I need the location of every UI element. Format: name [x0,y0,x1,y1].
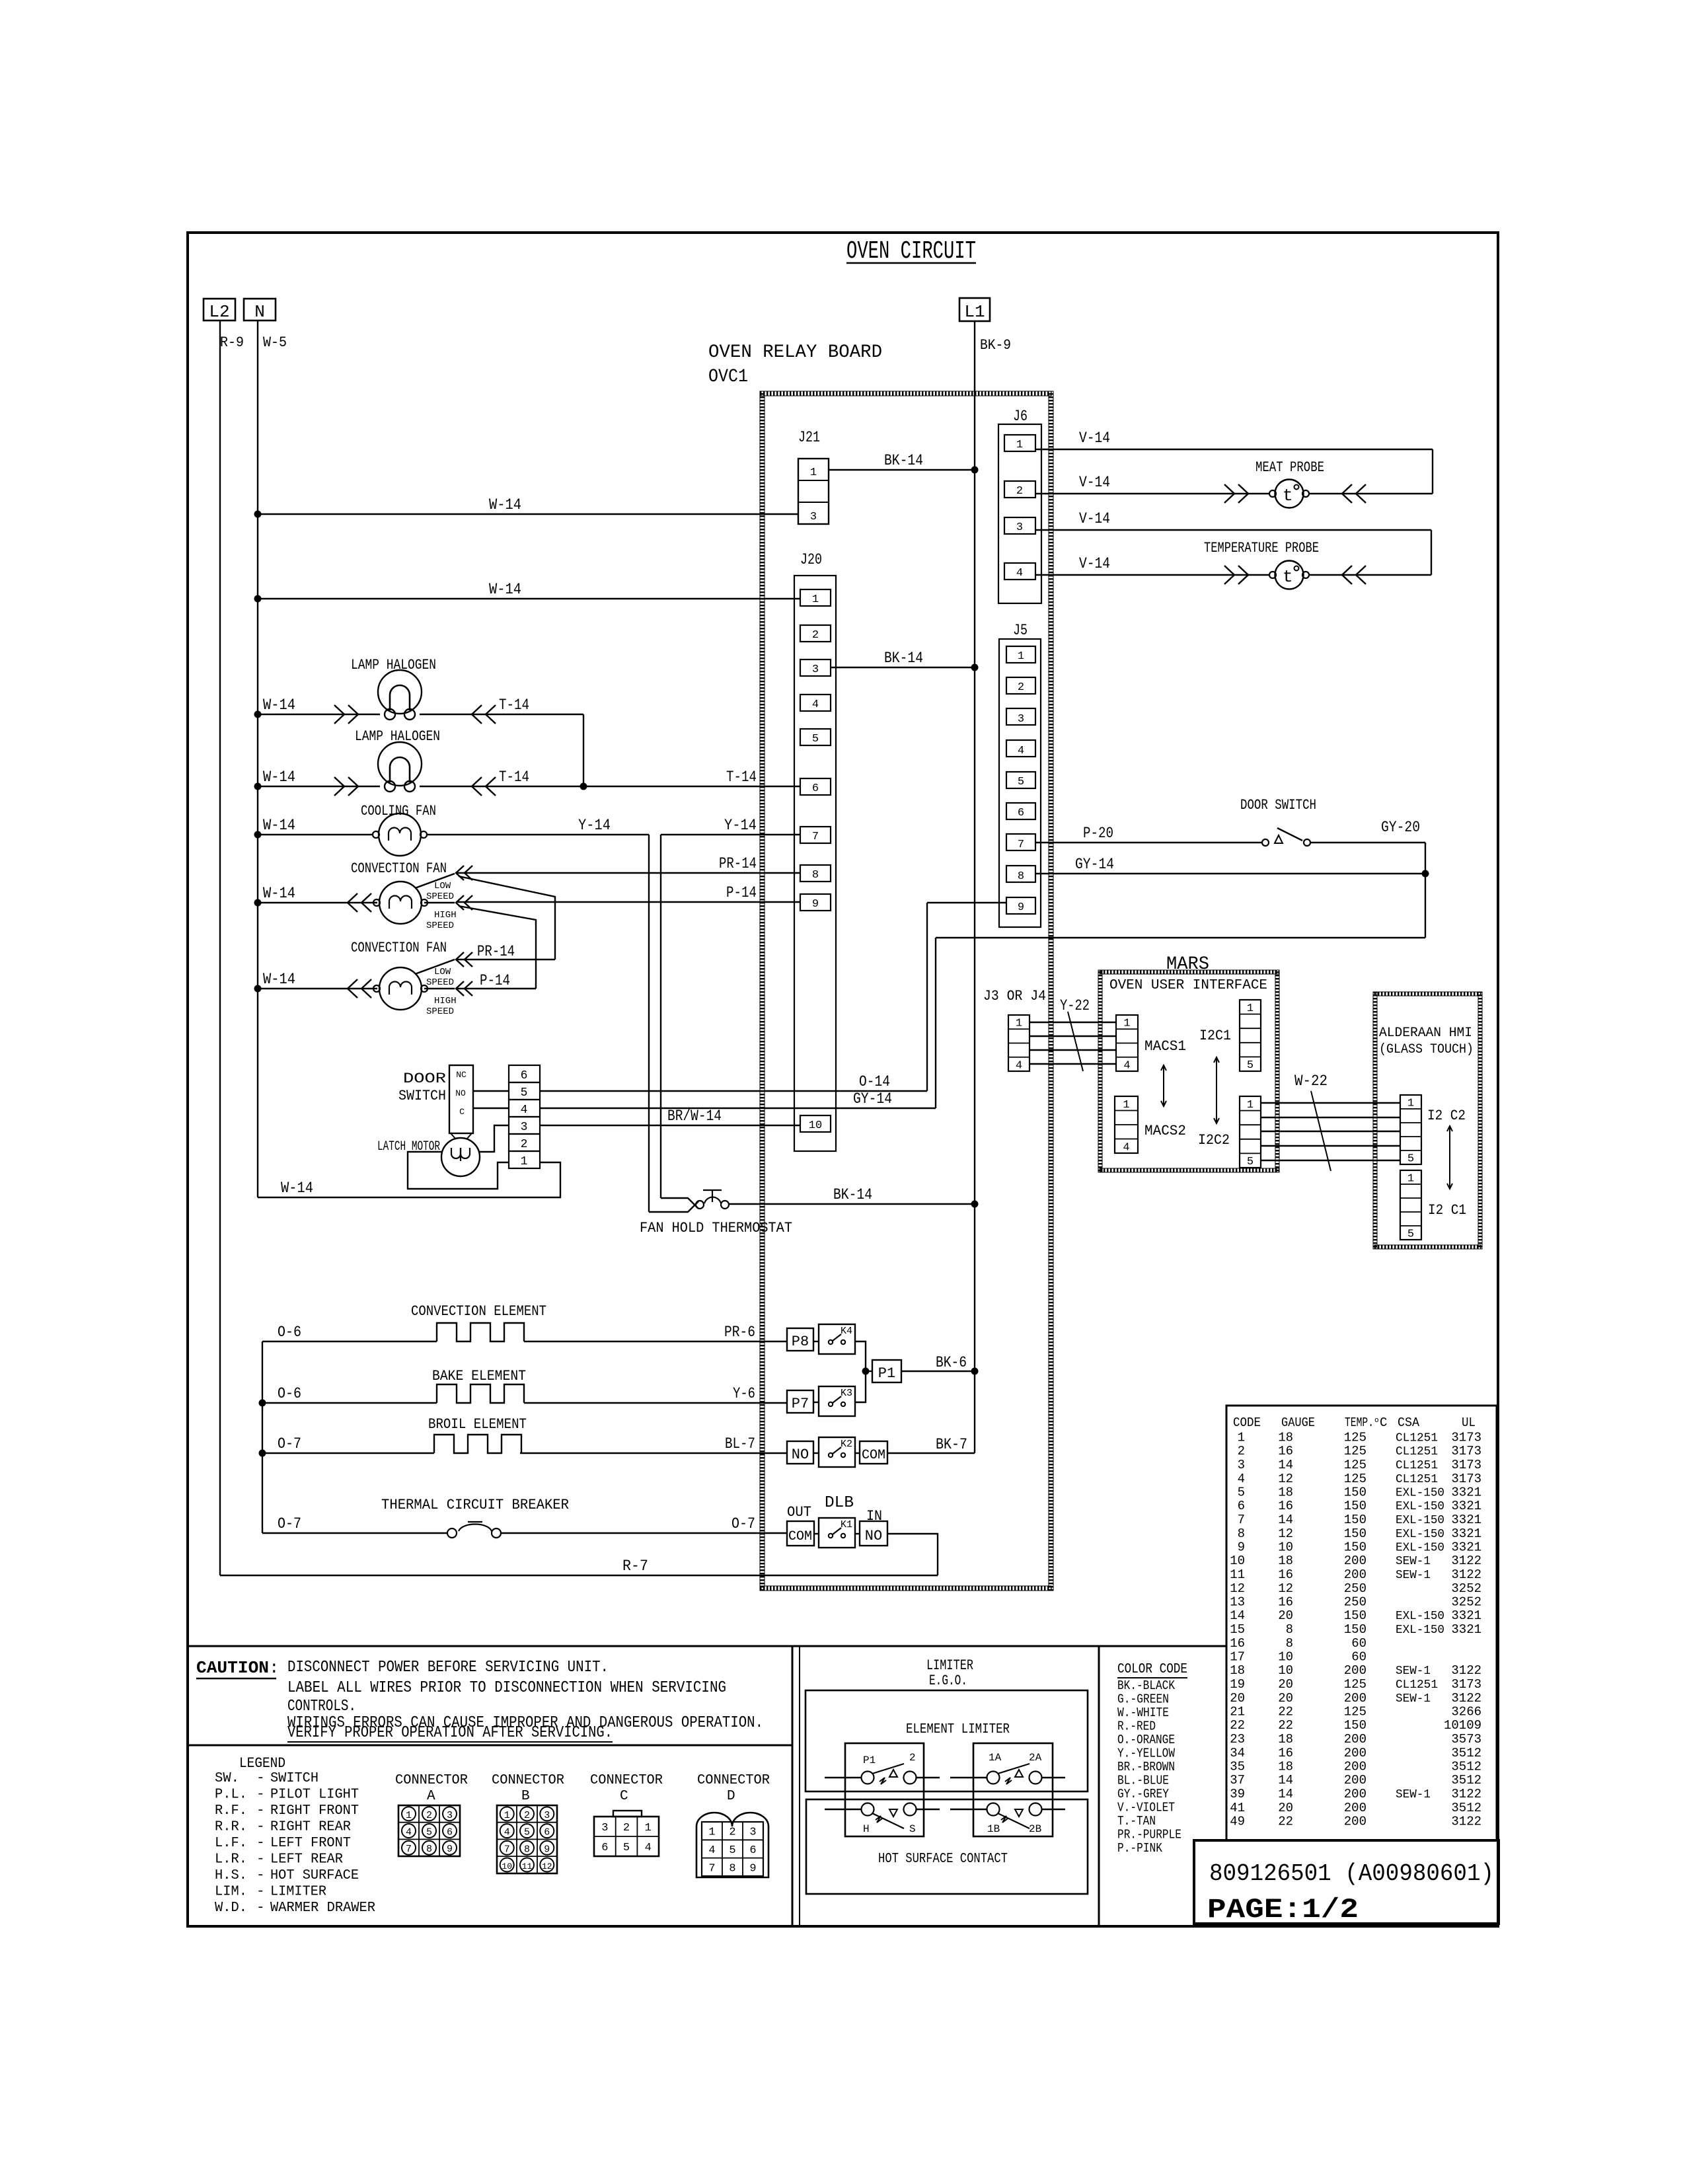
latch motor [377,1138,480,1176]
svg-text:P1: P1 [878,1365,895,1382]
svg-text:NO: NO [455,1088,466,1098]
svg-text:EXL-150: EXL-150 [1396,1487,1444,1500]
svg-text:HOT SURFACE: HOT SURFACE [270,1868,359,1883]
svg-text:P-14: P-14 [480,972,510,989]
svg-text:O-7: O-7 [278,1515,301,1532]
svg-text:3: 3 [1238,1458,1245,1472]
svg-text:COM: COM [788,1529,812,1544]
svg-text:Y-14: Y-14 [724,817,757,834]
svg-text:4: 4 [1016,567,1023,580]
svg-text:TEMPERATURE PROBE: TEMPERATURE PROBE [1204,540,1319,556]
svg-text:1: 1 [1407,1173,1414,1186]
DLB relay labels [787,1494,882,1525]
svg-text:RIGHT FRONT: RIGHT FRONT [270,1803,359,1819]
svg-text:PR.-PURPLE: PR.-PURPLE [1117,1828,1181,1842]
svg-text:3122: 3122 [1451,1554,1481,1568]
svg-text:BK-6: BK-6 [936,1354,967,1371]
terminal L2 [204,299,235,322]
svg-text:12: 12 [1278,1581,1293,1596]
svg-text:8: 8 [524,1844,530,1855]
svg-text:3512: 3512 [1451,1801,1481,1815]
svg-text:BK-9: BK-9 [980,337,1011,354]
svg-text:4: 4 [406,1827,412,1838]
svg-text:L.F.: L.F. [215,1836,247,1851]
connector B diagram [492,1773,564,1873]
wire GY-20 door switch to corner [1310,819,1425,938]
svg-text:CONNECTOR: CONNECTOR [395,1773,468,1788]
wire BK-6 P1 to L1 [901,1354,979,1375]
svg-text:K1: K1 [841,1519,852,1530]
hot surface contacts 1B-2B [950,1803,1065,1836]
svg-text:5: 5 [1238,1486,1245,1500]
terminal L1 [959,298,990,322]
svg-text:6: 6 [447,1827,453,1838]
svg-text:2: 2 [623,1822,630,1834]
svg-text:TEMP.: TEMP. [1345,1415,1374,1430]
svg-text:SPEED: SPEED [426,1006,454,1017]
svg-text:EXL-150: EXL-150 [1396,1500,1444,1513]
connector J20 [794,551,836,1151]
section divider vertical 1 [792,1646,800,1926]
svg-text:5: 5 [1018,776,1024,788]
svg-text:EXL-150: EXL-150 [1396,1624,1444,1637]
svg-text:10: 10 [1278,1540,1293,1555]
svg-text:H: H [863,1823,870,1835]
connector J5 [999,622,1041,927]
hot surface contacts H-S [825,1803,940,1836]
svg-text:3512: 3512 [1451,1773,1481,1788]
svg-text:150: 150 [1344,1718,1367,1733]
svg-text:T-14: T-14 [726,769,757,786]
svg-text:22: 22 [1278,1815,1293,1829]
svg-text:3573: 3573 [1451,1732,1481,1747]
svg-text:18: 18 [1278,1431,1293,1445]
wire V-14 J6 pin1 [1035,430,1433,449]
svg-text:VERIFY PROPER OPERATION AFTER: VERIFY PROPER OPERATION AFTER SERVICING. [287,1724,613,1742]
svg-text:2: 2 [426,1810,432,1821]
svg-text:Y-14: Y-14 [578,817,611,834]
svg-text:V-14: V-14 [1079,430,1110,447]
svg-text:S: S [909,1823,916,1835]
svg-text:6: 6 [601,1842,608,1854]
door switch (oven) [1240,797,1316,846]
svg-text:BR/W-14: BR/W-14 [667,1108,722,1125]
svg-text:14: 14 [1278,1513,1293,1527]
svg-text:7: 7 [1018,839,1024,851]
relay terminal NO (DLB) [814,1521,887,1546]
svg-text:2: 2 [524,1810,530,1821]
svg-text:J20: J20 [800,551,822,568]
connector I2 C2 [1400,1095,1466,1166]
svg-text:C: C [1380,1415,1387,1430]
svg-text:W.D.: W.D. [215,1901,247,1916]
svg-text:200: 200 [1344,1732,1367,1747]
meat probe [1035,449,1433,508]
svg-text:W-14: W-14 [263,885,295,902]
svg-text:CONTROLS.: CONTROLS. [287,1698,356,1715]
fan hold thermostat [640,1190,792,1236]
wires Y-22 J3/J4 to MACS1 [1030,997,1116,1071]
svg-text:17: 17 [1230,1650,1245,1665]
svg-text:9: 9 [1238,1540,1245,1555]
svg-text:CAUTION: CAUTION [196,1658,269,1678]
svg-text:T.-TAN: T.-TAN [1117,1814,1156,1828]
svg-text:22: 22 [1230,1718,1245,1733]
svg-text:O.-ORANGE: O.-ORANGE [1117,1733,1175,1747]
svg-text:10: 10 [1230,1554,1245,1568]
svg-text:O-7: O-7 [731,1515,755,1532]
svg-text:5: 5 [623,1842,630,1854]
svg-text:125: 125 [1344,1705,1367,1719]
svg-text:SWITCH: SWITCH [398,1088,446,1104]
svg-text:35: 35 [1230,1760,1245,1774]
svg-text:8: 8 [729,1862,735,1875]
wire BK-14 J20 pin3 to L1 [831,650,979,671]
svg-text:6: 6 [749,1844,756,1857]
svg-text:18: 18 [1278,1554,1293,1568]
svg-text:125: 125 [1344,1458,1367,1472]
svg-text:-: - [256,1788,265,1803]
convection fan 2 [351,940,457,1017]
svg-text:22: 22 [1278,1705,1293,1719]
svg-text:SEW-1: SEW-1 [1396,1692,1431,1706]
svg-text:20: 20 [1278,1608,1293,1623]
svg-text:1: 1 [504,1810,510,1821]
svg-text:B: B [521,1789,530,1804]
svg-text:200: 200 [1344,1760,1367,1774]
svg-text:NO: NO [792,1447,809,1463]
svg-text:150: 150 [1344,1486,1367,1500]
svg-text:1: 1 [1016,439,1023,451]
svg-text:SEW-1: SEW-1 [1396,1788,1431,1801]
svg-text:2A: 2A [1029,1752,1042,1764]
svg-text:6: 6 [1018,807,1024,819]
svg-text:3: 3 [1016,521,1023,534]
svg-text:4: 4 [1016,1059,1022,1072]
wires W-22 I2C2 to HMI [1261,1073,1400,1171]
wire BK-14 J21 pin1 to L1 [829,452,979,474]
svg-text:21: 21 [1230,1705,1245,1719]
svg-text:BK-14: BK-14 [833,1186,872,1203]
svg-text:I2C2: I2C2 [1198,1132,1230,1148]
svg-text:1: 1 [406,1810,412,1821]
wire T-14 lamp2 to J20 pin6 [420,769,800,796]
svg-text:t: t [1283,486,1293,506]
svg-text:11: 11 [522,1862,533,1871]
svg-text:3266: 3266 [1451,1705,1481,1719]
svg-text:809126501 (A00980601): 809126501 (A00980601) [1209,1860,1494,1887]
svg-text:1B: 1B [987,1823,1000,1835]
svg-text:P-20: P-20 [1083,825,1113,842]
door switch (latch) body [398,1065,473,1139]
arrow I2C1-I2C2 [1214,1057,1219,1123]
svg-text:14: 14 [1230,1608,1245,1623]
relay K4 [819,1324,855,1354]
svg-text:HIGH: HIGH [434,910,457,921]
svg-text:P1: P1 [863,1754,876,1766]
svg-text:3321: 3321 [1451,1526,1481,1541]
svg-text:LIMITER: LIMITER [926,1657,973,1674]
svg-text:CL1251: CL1251 [1396,1432,1438,1445]
svg-text:2: 2 [1016,485,1023,498]
part number box [1194,1840,1499,1924]
svg-text:CONVECTION FAN: CONVECTION FAN [351,860,447,877]
svg-text:J3 OR J4: J3 OR J4 [983,988,1046,1004]
svg-text:PILOT LIGHT: PILOT LIGHT [270,1788,359,1803]
wire N bus W-14 [257,320,258,1197]
svg-text:4: 4 [812,698,819,711]
svg-text:R-9: R-9 [220,334,244,351]
svg-text:3173: 3173 [1451,1431,1481,1445]
svg-text:I2 C1: I2 C1 [1428,1202,1466,1219]
connector C diagram [590,1773,663,1856]
convection element [262,1303,787,1341]
wire W-14 to convection fan 2 [254,971,378,998]
wire W-14 to cooling fan [254,817,373,839]
svg-text:9: 9 [1018,901,1024,914]
svg-text:SEW-1: SEW-1 [1396,1665,1431,1678]
svg-text:3122: 3122 [1451,1567,1481,1582]
svg-text:41: 41 [1230,1801,1245,1815]
title OVEN CIRCUIT [846,237,976,266]
svg-text:3173: 3173 [1451,1677,1481,1692]
svg-text:I2C1: I2C1 [1199,1028,1231,1044]
svg-text:L2: L2 [209,302,229,322]
wire PR-14 conv fan2 low speed [415,943,555,974]
lamp halogen 1 [351,657,436,720]
svg-text:OVEN CIRCUIT: OVEN CIRCUIT [846,237,976,266]
label LIMITER E.G.O. [926,1657,973,1689]
svg-text:16: 16 [1278,1746,1293,1760]
svg-text:LOW: LOW [434,881,451,891]
svg-text:22: 22 [1278,1718,1293,1733]
svg-text:O-7: O-7 [278,1435,301,1452]
svg-text:BAKE ELEMENT: BAKE ELEMENT [432,1368,526,1384]
svg-text:COOLING FAN: COOLING FAN [361,803,436,819]
svg-text:16: 16 [1230,1636,1245,1651]
svg-text:49: 49 [1230,1815,1245,1829]
arrow I2C2-I2C1 [1447,1126,1452,1189]
svg-text:2: 2 [1238,1444,1245,1458]
svg-text:7: 7 [1238,1513,1245,1527]
svg-text:-: - [256,1820,265,1835]
svg-text:NO: NO [865,1528,882,1544]
svg-text:GY-14: GY-14 [853,1090,892,1108]
wire code table [1230,1415,1481,1829]
svg-text:N: N [254,302,265,322]
svg-text:3122: 3122 [1451,1663,1481,1678]
svg-text:CONVECTION ELEMENT: CONVECTION ELEMENT [411,1303,546,1320]
svg-text:A: A [427,1789,435,1804]
svg-text:OVEN USER INTERFACE: OVEN USER INTERFACE [1109,978,1267,993]
svg-text:MACS2: MACS2 [1144,1123,1186,1139]
svg-text:K4: K4 [841,1326,852,1337]
svg-text:DOOR: DOOR [403,1071,446,1087]
svg-text:K3: K3 [841,1388,852,1399]
svg-text:W-14: W-14 [489,581,521,598]
svg-text:12: 12 [1230,1581,1245,1596]
svg-text:14: 14 [1278,1787,1293,1801]
connector J3 or J4 [983,988,1046,1072]
svg-text:R.-RED: R.-RED [1117,1719,1156,1734]
svg-text:1: 1 [1123,1018,1130,1030]
connector J6 [998,408,1041,603]
svg-text:16: 16 [1278,1499,1293,1513]
svg-text:THERMAL CIRCUIT BREAKER: THERMAL CIRCUIT BREAKER [381,1497,569,1513]
svg-text:R-7: R-7 [622,1558,648,1575]
svg-text:16: 16 [1278,1444,1293,1458]
wire Y-14 cooling fan to thermostat branch [427,817,649,1212]
svg-text:EXL-150: EXL-150 [1396,1528,1444,1541]
svg-text:LEGEND: LEGEND [239,1755,285,1772]
svg-text:GY.-GREY: GY.-GREY [1117,1787,1170,1801]
svg-text:1: 1 [1016,1018,1022,1030]
svg-text:SEW-1: SEW-1 [1396,1569,1431,1582]
svg-text:-: - [256,1836,265,1851]
svg-text:P7: P7 [792,1396,809,1412]
limiter switch group right box [973,1743,1053,1836]
svg-text:5: 5 [1407,1153,1414,1166]
relay K3 [819,1386,855,1416]
svg-text:12: 12 [542,1862,552,1871]
svg-text:3321: 3321 [1451,1499,1481,1513]
svg-text:P.L.: P.L. [215,1788,247,1803]
wire L1 bus BK-9 [974,321,975,1453]
svg-text:PAGE:1/2: PAGE:1/2 [1207,1894,1359,1926]
svg-text:6: 6 [1238,1499,1245,1513]
svg-text:250: 250 [1344,1581,1367,1596]
svg-text:3321: 3321 [1451,1540,1481,1555]
svg-text:20: 20 [1278,1691,1293,1706]
wire W-14 to convection fan 1 [254,885,378,912]
svg-text:t: t [1283,567,1293,587]
wire P8-K4 and K4 to P1 node [813,1341,866,1371]
svg-text:CL1251: CL1251 [1396,1459,1438,1472]
svg-text:60: 60 [1351,1636,1367,1651]
relay K1 DLB [819,1518,855,1548]
svg-text:CODE: CODE [1233,1415,1261,1430]
svg-text:MEAT PROBE: MEAT PROBE [1255,459,1324,476]
connector D diagram [696,1773,770,1877]
svg-text:C: C [620,1789,628,1804]
connector MACS2 [1115,1096,1186,1154]
svg-text:W-14: W-14 [489,496,521,513]
wire door switch NO to stack 5 [473,1090,509,1092]
svg-text:6: 6 [521,1069,528,1082]
svg-text:3173: 3173 [1451,1472,1481,1486]
svg-text:-: - [256,1771,265,1786]
thermal circuit breaker [262,1497,787,1538]
svg-text:PR-14: PR-14 [477,943,515,960]
svg-text:K2: K2 [841,1439,852,1450]
svg-text:1: 1 [1407,1098,1414,1110]
svg-text:18: 18 [1278,1760,1293,1774]
wire W-14 stack1 to N bus [258,1162,560,1197]
svg-text:4: 4 [1238,1472,1245,1486]
caution text [196,1658,763,1742]
svg-text:2B: 2B [1029,1823,1041,1835]
svg-text:BROIL ELEMENT: BROIL ELEMENT [428,1416,527,1433]
wire O-14 stack5 to J5 pin9 riser [540,1073,927,1091]
svg-text:150: 150 [1344,1540,1367,1555]
svg-text:10: 10 [1278,1663,1293,1678]
svg-text:BK-14: BK-14 [884,650,923,667]
svg-text:7: 7 [504,1844,510,1855]
svg-text:150: 150 [1344,1499,1367,1513]
element limiter box [805,1690,1088,1791]
svg-text:P.-PINK: P.-PINK [1117,1841,1162,1856]
svg-text:SPEED: SPEED [426,891,454,902]
svg-text:CSA: CSA [1398,1415,1420,1430]
label MARS [1166,954,1209,975]
svg-text:SEW-1: SEW-1 [1396,1555,1431,1568]
svg-text:BR.-BROWN: BR.-BROWN [1117,1760,1175,1774]
broil element [259,1416,788,1457]
svg-text:150: 150 [1344,1622,1367,1637]
svg-text:200: 200 [1344,1554,1367,1568]
svg-text:125: 125 [1344,1472,1367,1486]
svg-text:6: 6 [544,1827,550,1838]
svg-text:18: 18 [1230,1663,1245,1678]
wire code table box [1226,1406,1497,1840]
label ALDERAAN HMI (GLASS TOUCH) [1379,1026,1474,1057]
svg-text:COLOR CODE: COLOR CODE [1117,1662,1187,1677]
svg-text:5: 5 [524,1827,530,1838]
svg-text:O-6: O-6 [278,1324,301,1341]
svg-text:1: 1 [1018,650,1024,663]
cooling fan [361,803,436,856]
svg-text:10109: 10109 [1444,1718,1481,1733]
svg-text:H.S.: H.S. [215,1868,247,1883]
svg-text:12: 12 [1278,1472,1293,1486]
svg-text:V-14: V-14 [1079,510,1110,527]
svg-text:8: 8 [1286,1622,1293,1637]
svg-text:-: - [256,1852,265,1867]
svg-text:BL.-BLUE: BL.-BLUE [1117,1774,1169,1788]
svg-text:1: 1 [810,467,817,479]
svg-text:HIGH: HIGH [434,996,457,1006]
svg-text::: : [269,1658,280,1678]
svg-text:GAUGE: GAUGE [1281,1415,1315,1430]
svg-text:SW.: SW. [215,1771,239,1786]
wire PR-14 conv fan1 low speed to J20 pin8 [415,855,800,888]
svg-text:R.F.: R.F. [215,1803,247,1819]
wire BR/W-14 stack3 to J20 pin10 [540,1108,800,1125]
page border frame [188,233,1498,1926]
wire P7-K3 and K3 to P1 node [813,1371,866,1402]
svg-text:2: 2 [521,1138,528,1151]
svg-text:2: 2 [909,1752,916,1764]
svg-text:10: 10 [1278,1650,1293,1665]
svg-text:CL1251: CL1251 [1396,1678,1438,1692]
svg-text:3: 3 [1018,713,1024,726]
svg-text:7: 7 [812,831,819,843]
svg-text:20: 20 [1278,1677,1293,1692]
svg-text:18: 18 [1278,1732,1293,1747]
wire P-20 J5 pin7 to door switch [1035,825,1262,843]
svg-text:EXL-150: EXL-150 [1396,1542,1444,1555]
svg-text:18: 18 [1278,1486,1293,1500]
svg-text:1: 1 [1247,1002,1254,1015]
wire V-14 J6 pin3 [1035,510,1431,530]
svg-text:OVEN RELAY BOARD: OVEN RELAY BOARD [708,342,882,363]
svg-text:EXL-150: EXL-150 [1396,1610,1444,1623]
wire BK-7 COM to L1 [887,1436,975,1453]
svg-text:5: 5 [1247,1156,1254,1168]
wire door switch C to stack 4 [473,1108,509,1109]
svg-text:DLB: DLB [825,1494,854,1512]
svg-text:15: 15 [1230,1622,1245,1637]
